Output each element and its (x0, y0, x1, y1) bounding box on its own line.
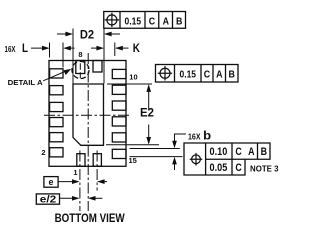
b up arrow line (174, 159, 176, 170)
detail A leader line (43, 70, 68, 81)
FCF2 texts (180, 69, 236, 81)
svg-text:E2: E2 (140, 105, 154, 119)
svg-text:B: B (176, 15, 183, 27)
pad pin 7 (left col 1) (50, 69, 63, 78)
E2 arrowhead down (146, 137, 151, 145)
e/2 arrow right line (90, 197, 102, 199)
E2 ext line top (107, 83, 152, 85)
svg-text:15: 15 (129, 156, 137, 165)
e arrowhead right (72, 179, 80, 184)
svg-text:8: 8 (78, 50, 82, 59)
K arrow left line (91, 47, 100, 49)
e arrowhead left (97, 179, 105, 184)
svg-text:B: B (261, 146, 267, 158)
L arrowhead right (63, 46, 71, 51)
arrowheads (42, 32, 177, 201)
e arrow left line (58, 181, 77, 183)
pad pin 4 (left col 4) (50, 118, 63, 127)
pad pin 14 (right col 5) (112, 133, 126, 142)
pad pin 1 (bottom) (77, 154, 85, 167)
L arrow right line (65, 47, 75, 49)
svg-text:B: B (229, 69, 236, 81)
svg-text:C: C (204, 69, 211, 81)
svg-text:10: 10 (129, 72, 137, 81)
D2 ext line right (103, 28, 105, 83)
svg-text:A: A (216, 69, 223, 81)
centerline pin 8 pad (79, 63, 81, 78)
centerline vertical (package) (87, 53, 89, 211)
svg-text:e/2: e/2 (40, 195, 57, 206)
e/2 dimension box (36, 194, 59, 204)
svg-text:D2: D2 (80, 28, 94, 42)
svg-text:DETAIL A: DETAIL A (8, 78, 44, 87)
svg-text:K: K (133, 43, 141, 55)
pad pin 11 (right col 2) (112, 85, 126, 94)
detail A circle (72, 61, 89, 78)
svg-text:0.15: 0.15 (180, 69, 197, 81)
e arrow right line (99, 181, 107, 183)
FCF3 texts (210, 146, 268, 174)
detail A leader arrowhead (64, 69, 72, 75)
svg-text:b: b (203, 130, 211, 142)
svg-text:16X: 16X (188, 132, 201, 141)
svg-text:L: L (22, 43, 28, 55)
pad pin 2 (left col 6) (50, 148, 63, 157)
pad pin 9 (top) (93, 61, 102, 73)
svg-text:0.05: 0.05 (210, 162, 228, 174)
exposed pad (chamfered) (73, 84, 104, 145)
svg-text:BOTTOM VIEW: BOTTOM VIEW (55, 213, 125, 225)
svg-text:1: 1 (73, 168, 77, 177)
b ext line top (130, 148, 180, 150)
svg-text:A: A (163, 15, 170, 27)
feature control frame 2 (E2 row) (156, 65, 239, 83)
svg-text:C: C (149, 15, 156, 27)
pad pin 12 (right col 3) (112, 101, 126, 110)
e/2 arrowhead right (72, 196, 80, 201)
pad pin 8 (top) (76, 61, 85, 74)
D2 ext line left (72, 29, 74, 84)
L ext line left (49, 43, 51, 58)
pad pin 5 (left col 3) (50, 102, 63, 111)
centerline pin 1 pad (79, 151, 81, 212)
E2 dim arrow down (148, 125, 150, 144)
e/2 arrow left line (60, 197, 78, 199)
D2 right arrowhead (104, 32, 112, 37)
L arrow line (31, 47, 48, 49)
svg-text:e: e (48, 177, 53, 187)
b ext line bottom (130, 156, 183, 158)
svg-text:0.10: 0.10 (210, 146, 228, 158)
svg-text:A: A (248, 146, 254, 158)
D2 left arrowhead (65, 32, 73, 37)
pad pin 15 (right col 6) (112, 149, 126, 158)
svg-text:16X: 16X (5, 45, 17, 54)
centerline pin 16 pad (96, 151, 98, 191)
package outline (49, 61, 126, 167)
centerline horizontal (package) (44, 114, 131, 116)
L arrowhead left (42, 46, 50, 51)
e/2 arrowhead left (88, 196, 96, 201)
pad pin 6 (left col 2) (50, 86, 63, 95)
pad pin 3 (left col 5) (50, 133, 63, 142)
E2 dim arrow up (148, 86, 150, 111)
D2 arrow right line (106, 33, 120, 35)
K arrowhead right (115, 46, 123, 51)
E2 arrowhead up (146, 84, 151, 92)
feature control frame 3 (16X b, two rows) (184, 143, 270, 175)
pad pin 16 (bottom) (93, 154, 101, 167)
pad pin 10 (right col 1) (112, 69, 126, 78)
K arrowhead left (96, 46, 104, 51)
pad pin 13 (right col 4) (112, 117, 126, 126)
b arrowhead down (172, 141, 177, 149)
svg-text:NOTE 3: NOTE 3 (250, 165, 279, 174)
b leader elbow (175, 134, 187, 147)
svg-text:2: 2 (41, 148, 45, 157)
b arrowhead up (172, 157, 177, 165)
D2 arrow left line (57, 33, 71, 35)
L ext line right (62, 43, 64, 68)
K arrow right line (116, 47, 129, 49)
e dimension box (44, 177, 58, 188)
svg-text:C: C (235, 162, 241, 174)
E2 ext line bottom (106, 144, 159, 146)
svg-text:0.15: 0.15 (125, 15, 142, 27)
dimension graphics (31, 28, 186, 198)
FCF1 texts (125, 15, 183, 27)
feature control frame 1 top (104, 12, 186, 29)
svg-text:C: C (235, 146, 241, 158)
K ext line right (114, 43, 116, 57)
